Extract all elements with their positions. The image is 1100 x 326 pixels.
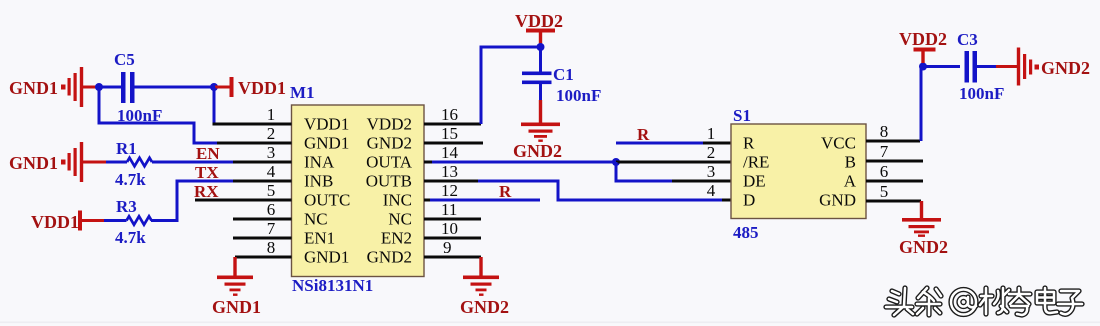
svg-text:VDD1: VDD1 xyxy=(31,212,79,232)
wire C5 to VDD1 junction xyxy=(135,86,215,89)
svg-text:A: A xyxy=(844,172,857,191)
svg-text:C5: C5 xyxy=(114,50,135,69)
bottom edge shade xyxy=(0,322,1100,324)
wire GND1 junction down then to pin 2 xyxy=(99,87,218,143)
node junction OUTA//RE/DE xyxy=(612,158,620,166)
node junction VDD2/C1 xyxy=(537,43,545,51)
svg-text:GND1: GND1 xyxy=(9,78,58,98)
M1 pin 13 xyxy=(424,180,480,183)
S1 inner pin names xyxy=(743,134,857,210)
wire M1 pin13 (OUTB) jog down to S1 pin 4 xyxy=(478,181,722,200)
wire S1 pin8 up to VDD2 junction xyxy=(921,67,960,142)
M1 pin 11 xyxy=(424,218,481,221)
svg-text:GND2: GND2 xyxy=(460,297,509,317)
svg-text:NC: NC xyxy=(388,210,412,229)
svg-text:6: 6 xyxy=(267,200,276,219)
svg-text:EN1: EN1 xyxy=(304,229,335,248)
svg-text:9: 9 xyxy=(443,238,452,257)
svg-text:INC: INC xyxy=(383,191,412,210)
svg-text:EN: EN xyxy=(196,144,220,163)
svg-text:GND1: GND1 xyxy=(304,134,349,153)
resistor R3 4.7k xyxy=(104,197,152,247)
svg-text:M1: M1 xyxy=(290,83,315,102)
wire C1 down xyxy=(539,84,542,101)
M1 pin 4 xyxy=(233,180,292,183)
wire net R into S1 pin 1 xyxy=(616,142,703,145)
svg-text:15: 15 xyxy=(441,124,458,143)
node junction VDD2/C3 xyxy=(919,63,927,71)
power VDD1 top xyxy=(215,77,286,98)
svg-text:OUTB: OUTB xyxy=(366,172,412,191)
wire C3 to GND2 xyxy=(977,65,998,68)
ground GND2 under M1 pin 9 xyxy=(460,257,509,317)
M1 pin 15 xyxy=(424,142,483,145)
svg-text:100nF: 100nF xyxy=(959,84,1004,103)
node junction at GND1/C5 xyxy=(95,83,103,91)
wire GND1 to C5 xyxy=(99,86,121,89)
svg-text:10: 10 xyxy=(441,219,458,238)
svg-text:C3: C3 xyxy=(957,30,978,49)
svg-text:R1: R1 xyxy=(116,139,137,158)
svg-text:/RE: /RE xyxy=(743,153,769,172)
resistor R1 4.7k xyxy=(106,139,152,189)
svg-text:4: 4 xyxy=(267,162,276,181)
svg-text:GND2: GND2 xyxy=(367,134,412,153)
svg-text:485: 485 xyxy=(733,223,759,242)
M1 pin 9 xyxy=(424,256,481,259)
svg-text:INB: INB xyxy=(304,172,333,191)
M1 pin 1 xyxy=(213,123,292,126)
svg-text:NC: NC xyxy=(304,210,328,229)
svg-text:R3: R3 xyxy=(116,197,137,216)
svg-text:2: 2 xyxy=(707,143,716,162)
svg-text:VDD2: VDD2 xyxy=(899,29,947,49)
svg-text:5: 5 xyxy=(267,181,276,200)
svg-text:14: 14 xyxy=(441,143,459,162)
svg-text:GND1: GND1 xyxy=(304,248,349,267)
svg-text:INA: INA xyxy=(304,153,335,172)
svg-text:12: 12 xyxy=(441,181,458,200)
IC M1 NSi8131N1 body xyxy=(290,83,424,295)
M1 inner pin names xyxy=(304,115,413,267)
M1 pin 12 xyxy=(424,199,432,202)
wire VDD2 junction left and down to pin 16 xyxy=(481,47,537,124)
M1 pin 6 xyxy=(233,218,292,221)
svg-text:RX: RX xyxy=(194,182,219,201)
IC S1 485 body xyxy=(731,106,866,242)
svg-text:3: 3 xyxy=(707,162,716,181)
svg-text:DE: DE xyxy=(743,172,766,191)
svg-text:D: D xyxy=(743,191,755,210)
watermark 头条@桃李电子 xyxy=(886,288,1082,315)
wire M1 pin14 (OUTA) to junction xyxy=(432,161,616,164)
svg-text:4.7k: 4.7k xyxy=(115,170,146,189)
svg-text:VCC: VCC xyxy=(821,134,856,153)
capacitor C5 xyxy=(114,50,162,125)
svg-text:1: 1 xyxy=(267,105,276,124)
svg-text:VDD2: VDD2 xyxy=(367,115,412,134)
S1 pin 8 xyxy=(866,140,920,143)
svg-text:6: 6 xyxy=(880,162,889,181)
wire junction down to C1 xyxy=(539,47,542,72)
wire M1 pin12 (INC) net R stub xyxy=(430,199,540,202)
svg-text:EN2: EN2 xyxy=(381,229,412,248)
svg-text:100nF: 100nF xyxy=(556,86,601,105)
svg-text:8: 8 xyxy=(880,122,889,141)
svg-text:3: 3 xyxy=(267,143,276,162)
svg-text:GND1: GND1 xyxy=(212,297,261,317)
M1 pin 10 xyxy=(424,237,481,240)
svg-text:4.7k: 4.7k xyxy=(115,228,146,247)
svg-text:11: 11 xyxy=(441,200,457,219)
svg-text:GND: GND xyxy=(819,191,856,210)
svg-text:B: B xyxy=(845,153,856,172)
svg-text:OUTA: OUTA xyxy=(366,153,413,172)
svg-text:GND2: GND2 xyxy=(899,237,948,257)
svg-text:VDD2: VDD2 xyxy=(515,11,563,31)
M1 pin 5 (RX stub) xyxy=(195,199,292,202)
wire VDD1 junction down to pin 1 xyxy=(213,87,216,124)
svg-text:7: 7 xyxy=(880,142,889,161)
power VDD1 lower (for R3) xyxy=(31,211,106,233)
svg-text:C1: C1 xyxy=(553,65,574,84)
svg-text:OUTC: OUTC xyxy=(304,191,350,210)
M1 pin 14 xyxy=(424,161,434,164)
svg-text:GND2: GND2 xyxy=(1041,58,1090,78)
svg-text:GND2: GND2 xyxy=(367,248,412,267)
M1 pin 3 xyxy=(233,161,292,164)
svg-text:VDD1: VDD1 xyxy=(238,78,286,98)
ground GND1 under M1 pin 8 xyxy=(212,257,261,317)
wire junction to S1 pin 2 xyxy=(616,161,731,164)
svg-text:VDD1: VDD1 xyxy=(304,115,349,134)
svg-text:GND2: GND2 xyxy=(513,141,562,161)
M1 pin 16 xyxy=(424,123,481,126)
wire R1 to pin 3 (EN) xyxy=(152,161,233,164)
svg-text:1: 1 xyxy=(707,124,716,143)
svg-text:4: 4 xyxy=(707,181,716,200)
svg-text:R: R xyxy=(637,125,650,144)
wire R3 up to pin 4 (TX) xyxy=(151,181,233,221)
svg-text:8: 8 xyxy=(267,238,276,257)
capacitor C3 xyxy=(957,30,1004,103)
S1 pin 7 xyxy=(866,160,923,163)
M1 pin 8 xyxy=(235,256,292,259)
wire junction down to S1 pin 3 xyxy=(616,162,672,181)
M1 pin 2 xyxy=(217,142,292,145)
svg-text:TX: TX xyxy=(195,163,219,182)
svg-text:R: R xyxy=(743,134,755,153)
svg-text:2: 2 xyxy=(267,124,276,143)
svg-text:13: 13 xyxy=(441,162,458,181)
capacitor C1 xyxy=(522,65,601,105)
svg-text:S1: S1 xyxy=(733,106,751,125)
power VDD2 right xyxy=(899,29,947,63)
S1 pin 6 xyxy=(866,180,923,183)
svg-text:5: 5 xyxy=(880,182,889,201)
svg-text:GND1: GND1 xyxy=(9,153,58,173)
ground GND2 under C1 xyxy=(513,100,562,161)
ground GND1 top-left (sideways earth symbol) xyxy=(9,67,99,107)
ground GND2 right of C3 (sideways earth symbol) xyxy=(1017,48,1090,86)
node junction at VDD1/pin1 xyxy=(210,83,218,91)
S1 pin 5 xyxy=(866,200,921,203)
M1 pin 7 xyxy=(233,237,292,240)
power VDD2 center xyxy=(515,11,563,45)
svg-text:R: R xyxy=(499,182,512,201)
svg-text:NSi8131N1: NSi8131N1 xyxy=(292,276,373,295)
svg-text:7: 7 xyxy=(267,219,276,238)
svg-text:16: 16 xyxy=(441,105,458,124)
ground GND2 under S1 pin 5 xyxy=(899,201,948,257)
ground GND1 left (for R1) xyxy=(9,142,108,182)
